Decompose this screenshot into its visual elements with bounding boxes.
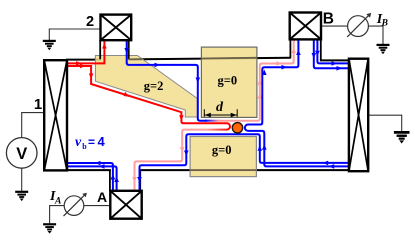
wire contact B to ammeter IB and ground — [321, 25, 348, 27]
svg-text:d: d — [216, 100, 224, 115]
mesa bottom edge (right segment) — [139, 169, 350, 171]
red channel R1: contact 1 to contact 2 — [66, 41, 104, 64]
svg-text:A: A — [97, 189, 107, 205]
ground (below IB) — [377, 45, 390, 54]
mesa top edge (right segment) — [320, 59, 350, 61]
gradient blue-to-pink above dot — [205, 120, 221, 122]
wire contact A to ammeter IA and ground — [84, 205, 111, 207]
red channel R2: contact 1 around g=2 to QPC loop — [66, 66, 230, 130]
svg-text:g=2: g=2 — [144, 79, 164, 93]
svg-text:4: 4 — [98, 134, 106, 149]
contact 1 (tall crossed box) — [44, 60, 67, 170]
svg-text:A: A — [54, 197, 61, 207]
svg-text:b: b — [82, 142, 87, 151]
gate g=0 (top) — [201, 47, 257, 117]
ammeter IB — [347, 13, 371, 37]
contact A (crossed box) — [110, 191, 141, 219]
contact 2 (crossed box) — [101, 15, 132, 41]
quantum dot (orange) — [232, 123, 242, 133]
red-to-pink return from loop to contact A — [135, 130, 228, 191]
blue channel B4: right contact, QPC loop, to contact B — [245, 40, 350, 166]
contact B legs — [289, 39, 291, 58]
ground (top left) — [43, 41, 56, 50]
svg-text:B: B — [323, 11, 334, 28]
V source wire to ground — [21, 168, 23, 191]
mesa bottom edge (left segment) — [66, 169, 111, 171]
wire right contact to ground — [368, 115, 402, 131]
ground (below IA) — [43, 224, 56, 233]
svg-text:=: = — [88, 135, 95, 149]
d arrow inside top gate — [204, 109, 237, 117]
svg-text:g=0: g=0 — [217, 73, 237, 87]
blue channel R3 (contact 2 to top gate, becomes pink to B) — [127, 41, 207, 121]
blue channel B3: right contact under dot to contact A — [140, 134, 350, 191]
contact B (crossed box) — [290, 13, 321, 40]
right contact (tall crossed box) — [349, 59, 368, 172]
ammeter IA — [64, 193, 87, 216]
ground (right of right contact) — [394, 132, 410, 143]
voltage source V — [6, 138, 37, 169]
ground (below V) — [15, 192, 28, 201]
mesa top edge (left segment) — [66, 59, 101, 61]
wire contact 1 to V source — [22, 113, 45, 138]
svg-text:V: V — [16, 145, 27, 163]
mesa edge seen through gates — [129, 58, 143, 60]
gate g=2 — [95, 56, 197, 118]
svg-text:2: 2 — [86, 14, 94, 30]
svg-text:ν: ν — [75, 135, 82, 150]
svg-text:1: 1 — [34, 96, 42, 113]
gate g=0 (bottom) — [190, 137, 256, 177]
contact A legs — [109, 170, 111, 191]
svg-text:g=0: g=0 — [212, 143, 232, 157]
blue channels B1,B2: contact A to contact 1 — [66, 163, 113, 191]
blue channels B5,B6: contact B to right contact — [314, 40, 350, 68]
mesa top edge (middle segment) — [128, 58, 291, 60]
svg-text:B: B — [381, 19, 388, 29]
contact 2 legs — [99, 40, 101, 59]
pink continuation to contact B — [219, 40, 294, 121]
wire from contact 2 to ground — [49, 29, 100, 40]
